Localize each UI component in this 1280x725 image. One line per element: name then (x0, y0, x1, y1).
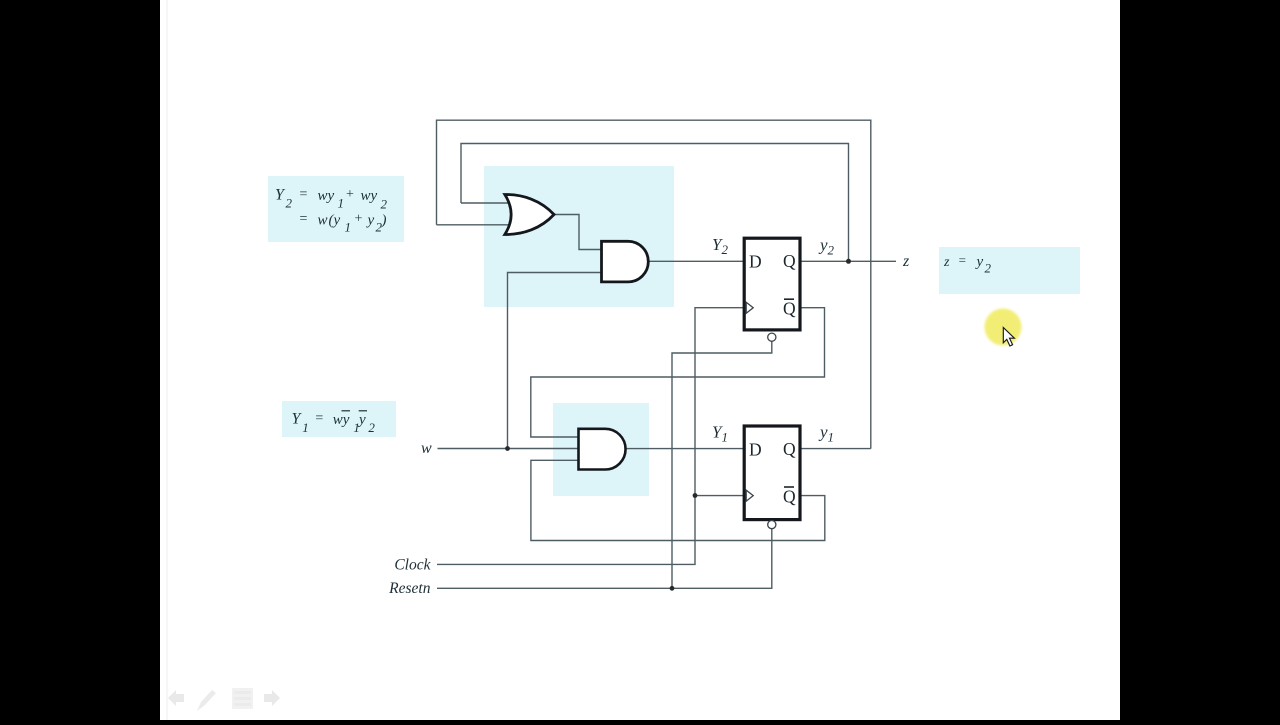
svg-text:y2: y2 (818, 236, 835, 258)
cursor highlight circle (985, 309, 1022, 346)
wire y1 FF2 Q output (800, 448, 871, 450)
svg-text:Q: Q (783, 299, 796, 319)
wire AND1 bottom input from w (508, 273, 602, 449)
svg-text:Resetn: Resetn (388, 580, 431, 597)
FF1 clear bubble (768, 333, 776, 341)
FF1 clock triangle (746, 302, 753, 313)
svg-text:y1: y1 (818, 423, 834, 445)
equation Y2 = wy1 + wy2 (275, 187, 388, 235)
AND gate G2 (602, 241, 649, 282)
junction node on z wire (846, 259, 851, 264)
svg-text:z: z (902, 253, 910, 270)
AND gate G3 (579, 429, 626, 470)
junction node on w wire (505, 446, 510, 451)
OR gate G1 (505, 194, 554, 234)
junction node on clock line (693, 493, 698, 498)
svg-text:Q: Q (783, 439, 796, 459)
wire inner feedback loop y2 to OR gate (461, 144, 849, 262)
highlight box around AND gate 2 (553, 403, 649, 496)
wire OR output to AND1 top input (554, 215, 602, 250)
wire Y1 AND2 output to FF2 D (626, 448, 745, 450)
FF2 label Qbar (783, 486, 796, 506)
equation Y1 = w ybar1 ybar2 (292, 411, 376, 435)
highlight box equation Y1 (282, 401, 396, 437)
highlight box equation Y2 (268, 176, 404, 242)
wire Resetn branch to FF1 clear (672, 342, 772, 589)
slide left edge line (166, 0, 168, 720)
svg-text:Q: Q (783, 251, 796, 271)
wire Clock branch to FF2 (695, 495, 746, 497)
svg-text:D: D (749, 251, 762, 271)
wire Y2 AND1 output to FF1 D (648, 260, 744, 262)
highlight box around OR/AND gates (484, 166, 674, 307)
wire outer feedback loop y1 to OR gate (437, 120, 871, 448)
wire Clock line (437, 308, 746, 565)
highlight box equation z (939, 247, 1080, 294)
toolbar icon list (232, 688, 253, 709)
FF2 clear bubble (768, 521, 776, 529)
svg-text:Y2: Y2 (712, 235, 728, 257)
D flip-flop FF1 box (744, 238, 800, 330)
equation z = y2 (943, 253, 992, 276)
svg-text:w: w (421, 440, 432, 457)
wire Qbar1 feedback to AND2 top input (531, 308, 825, 437)
toolbar icon pen (197, 690, 216, 711)
junction node on resetn line (670, 586, 675, 591)
wire OR gate bottom input (437, 224, 513, 226)
wire Resetn line (437, 529, 772, 588)
mouse cursor (1003, 328, 1014, 347)
toolbar icon back arrow (168, 690, 184, 706)
wire Qbar2 feedback to AND2 bottom input (531, 460, 825, 540)
FF1 label Qbar (783, 299, 796, 319)
svg-text:Clock: Clock (394, 557, 431, 574)
wire z output from FF1 Q (800, 260, 896, 262)
svg-text:D: D (749, 439, 762, 459)
svg-text:Q: Q (783, 486, 796, 506)
wire w input (438, 448, 579, 450)
wire OR gate top input (461, 202, 514, 204)
toolbar icon forward arrow (264, 690, 280, 706)
D flip-flop FF2 box (744, 426, 800, 520)
FF2 clock triangle (746, 490, 753, 501)
svg-text:Y1: Y1 (712, 423, 728, 445)
